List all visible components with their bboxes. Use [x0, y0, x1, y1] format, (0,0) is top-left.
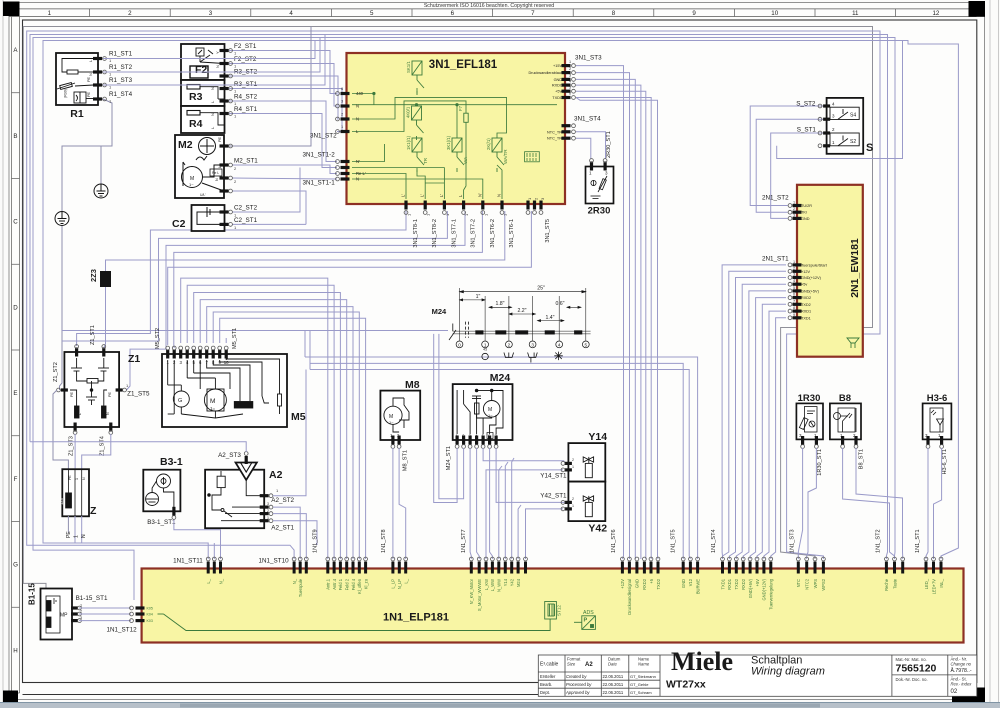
- connector R3_ST2: [220, 74, 229, 77]
- connector 1N1_ST4: [721, 562, 724, 574]
- wire Y14 return to 1N1_ST7: [486, 470, 563, 559]
- wire 1N1_ST7 pin5 feeder: [499, 466, 502, 559]
- resistor R3: [181, 80, 225, 106]
- svg-text:U/L': U/L': [200, 193, 206, 197]
- connector 1N1_ST9: [326, 562, 329, 574]
- svg-text:Tuerverriegelung: Tuerverriegelung: [769, 578, 774, 610]
- svg-text:Z1_ST4: Z1_ST4: [99, 436, 105, 456]
- svg-text:PE: PE: [218, 136, 222, 142]
- wire M2 PE to rail: [226, 27, 311, 147]
- wire R1_ST4 to PE rail: [62, 99, 112, 212]
- svg-text:A2: A2: [585, 662, 593, 668]
- svg-text:+5: +5: [649, 578, 654, 583]
- earth ground 2: [55, 212, 69, 226]
- svg-text:1N1_ST11: 1N1_ST11: [173, 558, 203, 565]
- svg-text:1: 1: [75, 478, 79, 480]
- svg-text:Kl_offen: Kl_offen: [357, 578, 362, 594]
- svg-text:L: L: [78, 413, 82, 415]
- svg-text:R1_ST3: R1_ST3: [109, 77, 133, 84]
- svg-text:S4: S4: [850, 113, 856, 119]
- svg-text:1~: 1~: [488, 413, 493, 418]
- svg-text:F: F: [14, 476, 18, 483]
- svg-text:L_KW: L_KW: [484, 579, 489, 590]
- svg-text:1N1_ST8: 1N1_ST8: [381, 529, 387, 553]
- capacitor C2: [192, 205, 225, 231]
- controller 1N1_ELP181: [142, 569, 964, 643]
- svg-text:H3-6: H3-6: [927, 393, 948, 404]
- svg-text:3: 3: [209, 10, 213, 17]
- svg-text:Rev.- index: Rev.- index: [951, 682, 973, 687]
- wire A2_ST2 up to runs: [273, 370, 306, 496]
- svg-text:1: 1: [572, 504, 574, 508]
- svg-text:1: 1: [793, 260, 795, 264]
- svg-text:Tuerspule/Start: Tuerspule/Start: [801, 263, 828, 267]
- svg-text:Dok.-Nr. Doc. no.: Dok.-Nr. Doc. no.: [896, 677, 928, 682]
- wire M5 staircase to 1N1_ST9: [181, 278, 328, 559]
- relay 2K1/1 WA/TR: [492, 138, 504, 172]
- svg-text:10: 10: [771, 10, 778, 17]
- svg-text:2: 2: [80, 610, 82, 614]
- svg-text:2N1_ST1: 2N1_ST1: [762, 255, 789, 262]
- svg-text:Date: Date: [608, 662, 618, 667]
- wire 1R30 down: [798, 448, 802, 559]
- svg-text:N: N: [356, 104, 359, 109]
- svg-text:2: 2: [793, 266, 795, 270]
- green pressure sensor ADS: [574, 616, 595, 630]
- wire S pin2 to 2N1_ST2.3: [771, 133, 827, 218]
- svg-text:Y42_ST1: Y42_ST1: [540, 493, 567, 500]
- svg-text:2: 2: [569, 67, 571, 71]
- svg-text:GND(+12V): GND(+12V): [762, 578, 767, 600]
- wire M2 pin4: [232, 191, 306, 224]
- svg-text:1N1_ST5: 1N1_ST5: [670, 529, 676, 553]
- svg-text:TXD1: TXD1: [801, 316, 811, 320]
- svg-text:3N1_ST4: 3N1_ST4: [574, 116, 601, 123]
- wire fan 2N1_ST1 to 1N1_ST4: [722, 265, 786, 559]
- svg-text:4K0/1: 4K0/1: [406, 106, 411, 118]
- connector 2R30_ST1: [590, 162, 593, 171]
- wire S pin4 to 2N1_ST2.1: [750, 106, 826, 206]
- connector H3-6_ST1: [926, 436, 929, 445]
- svg-text:+5V: +5V: [755, 579, 760, 587]
- svg-text:5: 5: [585, 343, 588, 348]
- wire M5 pin10 stub: [225, 338, 227, 343]
- svg-text:F2_ST1: F2_ST1: [234, 43, 257, 50]
- svg-text:M24: M24: [516, 578, 521, 587]
- svg-text:TXD2: TXD2: [801, 303, 811, 307]
- svg-text:8: 8: [612, 10, 616, 17]
- svg-text:RXD1: RXD1: [727, 578, 732, 590]
- svg-text:MP: MP: [60, 613, 68, 619]
- svg-text:2: 2: [572, 458, 574, 462]
- svg-text:1N1_ST10: 1N1_ST10: [259, 558, 290, 565]
- lamp symbol in EW181: [847, 338, 859, 348]
- svg-text:LED_: LED_: [924, 578, 929, 589]
- svg-text:RXD0: RXD0: [552, 84, 562, 88]
- svg-text:R4_ST2: R4_ST2: [234, 94, 258, 101]
- wire 1N1_ST7 pin7 feeder: [512, 458, 514, 559]
- svg-text:2: 2: [267, 509, 269, 513]
- wire 3N1_ST4.2 to 2R30: [576, 132, 606, 159]
- fan motor M8: [380, 391, 420, 440]
- svg-text:+5V: +5V: [555, 90, 562, 94]
- svg-text:A2_ST1: A2_ST1: [271, 525, 294, 532]
- interference suppressor R1: [56, 53, 98, 105]
- svg-text:2R30: 2R30: [588, 206, 611, 217]
- svg-text:Y14: Y14: [503, 578, 508, 586]
- wire long runs to 1N1_ST5: [310, 363, 683, 559]
- svg-text:B8: B8: [839, 393, 851, 404]
- svg-text:GT_Schram: GT_Schram: [630, 690, 652, 695]
- svg-text:45: 45: [483, 348, 487, 352]
- connector 1N1_ST7: [470, 562, 473, 574]
- svg-text:9: 9: [692, 10, 696, 17]
- svg-text:K05: K05: [147, 607, 153, 611]
- dispenser switch A2: [205, 470, 264, 529]
- svg-text:L_: L_: [404, 578, 409, 583]
- svg-text:Z1_ST5: Z1_ST5: [127, 390, 150, 397]
- wire EFL bottom staircase 6: [168, 211, 532, 345]
- svg-text:440: 440: [356, 91, 364, 96]
- svg-text:Y42: Y42: [588, 523, 607, 535]
- connector 1N1_ST6: [621, 562, 624, 574]
- svg-text:Antr.1: Antr.1: [326, 578, 331, 589]
- wire top margin 5: [43, 41, 958, 560]
- svg-text:Feld 1: Feld 1: [338, 578, 343, 590]
- svg-text:1N1_ST6: 1N1_ST6: [611, 529, 617, 553]
- wire A2 to 1N1_ST10: [273, 507, 300, 559]
- svg-text:2: 2: [572, 497, 574, 501]
- svg-text:3N1_ST1-1: 3N1_ST1-1: [303, 180, 336, 187]
- svg-text:Ersteller: Ersteller: [540, 674, 556, 679]
- title block: [538, 655, 977, 696]
- wire 1N1_ST7 pin6 feeder: [505, 462, 508, 559]
- corner mark top-right: [969, 1, 986, 17]
- connector B8_ST1: [841, 436, 844, 445]
- svg-text:N: N: [81, 534, 87, 538]
- wire R3_ST1 staircase: [228, 89, 342, 132]
- svg-text:N'_KW_Motor: N'_KW_Motor: [469, 578, 474, 604]
- svg-text:3: 3: [267, 502, 269, 506]
- svg-text:Feld 2: Feld 2: [345, 578, 350, 590]
- capacitor Z: [62, 469, 89, 516]
- svg-text:2R30_ST1: 2R30_ST1: [606, 131, 612, 158]
- svg-text:+15V: +15V: [553, 64, 562, 68]
- svg-text:25": 25": [537, 286, 545, 292]
- svg-text:1~: 1~: [189, 182, 194, 187]
- solenoid valve Y14: [568, 443, 605, 482]
- svg-text:3N1_ST7-1: 3N1_ST7-1: [451, 219, 457, 248]
- svg-text:1N1_ST7: 1N1_ST7: [461, 529, 467, 553]
- svg-text:1.4": 1.4": [545, 315, 554, 321]
- svg-text:WT27xx: WT27xx: [666, 679, 706, 691]
- wire EFL bottom staircase 1: [77, 211, 406, 346]
- svg-text:S_Motor_WWWE: S_Motor_WWWE: [477, 579, 482, 611]
- button B8: [830, 403, 861, 439]
- svg-text:C: C: [13, 219, 18, 226]
- svg-text:1N1_ST4: 1N1_ST4: [711, 529, 717, 553]
- svg-text:3: 3: [793, 273, 795, 277]
- svg-text:Kl_zu: Kl_zu: [363, 579, 368, 589]
- svg-text:1=: 1=: [210, 406, 216, 411]
- svg-text:GND: GND: [554, 78, 563, 82]
- svg-text:WA: WA: [463, 156, 468, 164]
- svg-text:+12V: +12V: [801, 270, 810, 274]
- svg-text:1R30_ST1: 1R30_ST1: [817, 449, 823, 476]
- top coordinate band: [9, 8, 977, 10]
- svg-text:GT_Gehle: GT_Gehle: [630, 682, 649, 687]
- wire EFL bottom staircase 2: [62, 211, 447, 341]
- connector C2_ST2: [220, 210, 229, 213]
- door switch S: [827, 98, 864, 154]
- wire PE branch to earth: [100, 146, 102, 184]
- drain pump M2: [175, 135, 224, 198]
- svg-text:PE: PE: [108, 391, 112, 397]
- svg-text:RXD1: RXD1: [801, 310, 811, 314]
- svg-text:L': L': [401, 194, 406, 197]
- svg-text:4: 4: [289, 10, 293, 17]
- capacitor F2: [181, 44, 225, 80]
- svg-text:Y14: Y14: [588, 431, 607, 443]
- connector 1N1_ST1: [925, 562, 928, 574]
- svg-text:H3-6_ST1: H3-6_ST1: [942, 449, 948, 475]
- svg-text:8: 8: [793, 306, 795, 310]
- svg-text:3N1_EFL181: 3N1_EFL181: [429, 59, 498, 71]
- svg-text:Processed by: Processed by: [566, 682, 592, 687]
- svg-text:S_ST1: S_ST1: [797, 127, 817, 134]
- antenna B1-15: [41, 589, 73, 640]
- wire EFL bottom staircase 3: [127, 211, 466, 390]
- svg-text:Z: Z: [90, 505, 97, 517]
- svg-text:Reche: Reche: [884, 578, 889, 591]
- wire S pin3 to 2N1_ST2.2: [756, 119, 826, 212]
- relay 4K0/1: [412, 106, 424, 140]
- connector Y42_ST1: [565, 501, 572, 504]
- svg-text:1: 1: [569, 60, 571, 64]
- svg-text:ST12: ST12: [557, 605, 562, 616]
- svg-text:M2: M2: [178, 139, 193, 151]
- svg-text:9: 9: [793, 313, 795, 317]
- bottom window bar: [0, 703, 1000, 708]
- svg-text:Dept.: Dept.: [540, 690, 550, 695]
- svg-text:Mat.-Nr. Mat. no.: Mat.-Nr. Mat. no.: [896, 657, 927, 662]
- 3N1_EFL181 internal circuit: [352, 88, 557, 199]
- svg-text:GND(+12V): GND(+12V): [801, 276, 822, 280]
- svg-text:Å.7978..-: Å.7978..-: [951, 667, 972, 674]
- svg-text:V12: V12: [688, 578, 693, 586]
- svg-text:S_ST2: S_ST2: [796, 100, 816, 107]
- svg-text:R3: R3: [189, 91, 203, 103]
- svg-text:M24: M24: [432, 307, 447, 316]
- svg-text:1K1(/1): 1K1(/1): [406, 135, 411, 150]
- svg-text:3K1(/1): 3K1(/1): [446, 135, 451, 150]
- svg-text:G: G: [13, 562, 18, 569]
- wire EFL bottom staircase 4: [174, 211, 483, 348]
- svg-text:RXD2: RXD2: [642, 578, 647, 590]
- wire Z1_ST4 to Z: [82, 434, 111, 469]
- wire S pin1 loop: [777, 41, 903, 159]
- wire cam power from PE rail: [62, 330, 448, 332]
- svg-text:D: D: [13, 304, 18, 311]
- M5 internals: [168, 359, 282, 418]
- connector M8_ST1: [391, 436, 394, 445]
- svg-text:N: N: [356, 117, 359, 122]
- cam position numbers: [456, 341, 463, 348]
- svg-text:WPS2: WPS2: [821, 578, 826, 590]
- svg-text:C2_ST1: C2_ST1: [234, 217, 258, 224]
- svg-text:WA/TR: WA/TR: [503, 149, 508, 164]
- svg-text:N: N: [210, 113, 215, 116]
- svg-text:1N1_ST3: 1N1_ST3: [790, 529, 796, 553]
- wire C2_ST2 up to EFL: [232, 168, 300, 213]
- svg-text:K03: K03: [147, 619, 153, 623]
- left coordinate band: [11, 17, 13, 694]
- svg-text:Y42: Y42: [510, 578, 515, 586]
- svg-text:Re L': Re L': [356, 171, 366, 176]
- svg-text:RXD2: RXD2: [741, 578, 746, 590]
- svg-text:N_WW: N_WW: [497, 579, 502, 592]
- svg-text:2: 2: [508, 343, 511, 348]
- svg-text:6: 6: [451, 10, 455, 17]
- svg-text:R1_ST2: R1_ST2: [109, 64, 133, 71]
- svg-text:3N1_ST3: 3N1_ST3: [575, 55, 602, 62]
- svg-text:+5v: +5v: [801, 283, 807, 287]
- wire top margin 4: [33, 38, 895, 601]
- connector Y14_ST1: [565, 462, 572, 465]
- svg-text:1: 1: [572, 465, 574, 469]
- connector R3_ST1: [220, 87, 229, 90]
- connector 1N1_ST11: [207, 562, 210, 574]
- green wire inside ELP: [158, 613, 164, 615]
- connector F2_ST2: [220, 62, 229, 65]
- svg-text:3: 3: [793, 213, 795, 217]
- wire 2Z3 down to Z1_ST1: [104, 287, 106, 352]
- svg-text:Name: Name: [638, 662, 650, 667]
- svg-text:2N1_ST2: 2N1_ST2: [762, 194, 789, 201]
- svg-text:Feld 4: Feld 4: [351, 578, 356, 590]
- corner mark bottom-left: [3, 691, 18, 704]
- wire F2_ST2 to 3N1_ST2.3: [228, 64, 337, 107]
- svg-text:3: 3: [80, 616, 82, 620]
- svg-text:N_LP: N_LP: [397, 579, 402, 590]
- svg-text:1N1_ST9: 1N1_ST9: [312, 529, 318, 553]
- svg-text:G: G: [178, 398, 182, 404]
- svg-text:PE: PE: [70, 391, 74, 397]
- controller 2N1_EW181: [797, 185, 863, 357]
- svg-text:N: N: [215, 178, 219, 181]
- connector R4_ST1: [220, 112, 229, 115]
- filter 2Z3: [100, 271, 111, 287]
- connector R1_ST1: [93, 57, 102, 60]
- wire M24 to Y14: [483, 448, 568, 463]
- svg-text:3N1_ST8-1: 3N1_ST8-1: [413, 219, 419, 248]
- svg-text:S2: S2: [850, 139, 856, 145]
- svg-text:Miele: Miele: [671, 647, 733, 676]
- svg-text:12: 12: [932, 10, 939, 17]
- svg-text:GND(+5V): GND(+5V): [801, 289, 820, 293]
- connector R4_ST2: [220, 99, 229, 102]
- connector 3N1_ST5: [526, 201, 529, 210]
- wire Z1_ST2 PE to Z: [53, 390, 68, 469]
- wire M2_ST1 to 3N1_ST1: [232, 165, 337, 174]
- wire Y42 return to 1N1_ST7: [526, 509, 564, 559]
- wire B3-1 to 1N1_ST11: [174, 520, 221, 560]
- connector 1N1_ST2: [885, 562, 888, 574]
- relay 1K1/1 TR: [412, 138, 424, 172]
- svg-text:L': L': [439, 194, 444, 197]
- corner mark top-left: [3, 2, 20, 17]
- svg-text:GND(+5V): GND(+5V): [748, 578, 753, 598]
- svg-text:3N1_ST6-2: 3N1_ST6-2: [490, 219, 496, 248]
- svg-text:N: N: [356, 177, 359, 182]
- solenoid valve Y42: [568, 482, 605, 521]
- connector M2_ST1: [220, 163, 229, 166]
- svg-text:6: 6: [569, 92, 571, 96]
- wire M24 pins down to 1N1_ST7: [470, 448, 471, 559]
- wire TXD0 extra: [576, 98, 658, 560]
- svg-text:BURWE: BURWE: [695, 579, 700, 594]
- svg-text:4: 4: [793, 279, 795, 283]
- svg-text:S: S: [866, 142, 873, 154]
- svg-text:5: 5: [370, 10, 374, 17]
- svg-text:Antr.4: Antr.4: [332, 578, 337, 589]
- relay SK1/1: [412, 61, 424, 95]
- green connector symbol ST12: [545, 602, 557, 620]
- svg-text:N_: N_: [292, 578, 297, 584]
- wire F2_ST1 to 3N1_ST2.6: [228, 51, 337, 94]
- svg-text:TR: TR: [423, 157, 428, 164]
- svg-text:Y14_ST1: Y14_ST1: [540, 473, 567, 480]
- svg-text:L': L': [420, 194, 425, 197]
- svg-text:Change no: Change no: [951, 662, 972, 667]
- wire Z1_ST3 to Z: [74, 434, 76, 469]
- svg-text:Z1_ST3: Z1_ST3: [69, 436, 75, 456]
- pressure sensor B3-1: [143, 470, 180, 512]
- svg-text:M8: M8: [405, 379, 420, 391]
- svg-text:R4_ST1: R4_ST1: [234, 106, 258, 113]
- svg-text:M2_ST1: M2_ST1: [234, 158, 258, 165]
- svg-text:11: 11: [852, 10, 859, 17]
- wire M24 pin7 to Y42: [496, 448, 568, 502]
- svg-text:22.06.2011: 22.06.2011: [603, 682, 624, 687]
- cam switch symbol: [449, 322, 469, 340]
- wire A2_ST3 up: [30, 442, 246, 452]
- svg-text:1: 1: [267, 516, 269, 520]
- svg-text:Taste: Taste: [892, 578, 897, 589]
- connector B3-1_ST1: [172, 507, 175, 516]
- svg-text:L_WW: L_WW: [490, 579, 495, 591]
- svg-text:E: E: [13, 390, 17, 397]
- svg-text:2: 2: [128, 10, 132, 17]
- svg-text:Approved by: Approved by: [565, 690, 590, 695]
- connector 3N1_ST8-1 bottom pins: [404, 201, 407, 210]
- svg-text:GND: GND: [681, 579, 686, 588]
- svg-text:N: N: [106, 412, 110, 415]
- indicator lamp H3-6: [923, 403, 952, 439]
- svg-text:N: N: [210, 87, 215, 90]
- svg-text:TXD0: TXD0: [552, 96, 562, 100]
- svg-text:3N1_ST6-1: 3N1_ST6-1: [509, 219, 515, 248]
- svg-text:Druckwandlerablauf: Druckwandlerablauf: [528, 71, 563, 75]
- svg-text:TU/2R: TU/2R: [801, 204, 812, 208]
- connector M2 pin3: [220, 189, 229, 192]
- wire R3_ST2 staircase: [228, 76, 338, 119]
- relay 3K1/1 WA: [452, 138, 464, 172]
- svg-text:5: 5: [793, 286, 795, 290]
- svg-text:NTC2: NTC2: [805, 578, 810, 589]
- M5 pin strip: [166, 350, 169, 359]
- wire loop L top margin: [27, 31, 880, 559]
